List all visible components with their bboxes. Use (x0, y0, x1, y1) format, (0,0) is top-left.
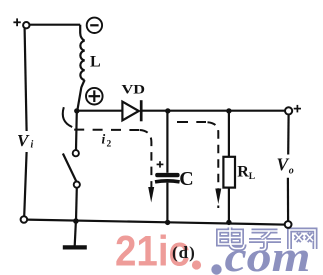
switch top contact (73, 150, 79, 156)
wire rail to diode (77, 110, 122, 112)
node junction left (74, 108, 79, 113)
svg-text:R: R (237, 164, 249, 181)
capacitor C bottom plate (155, 181, 180, 182)
watermark char 电 (219, 228, 245, 249)
switch lever (63, 154, 77, 182)
wire inductor to node (77, 80, 84, 111)
svg-text:2: 2 (107, 139, 112, 149)
svg-text:C: C (179, 168, 193, 190)
terminal top-left (23, 22, 29, 28)
watermark .com (211, 234, 310, 275)
label Vo (277, 155, 294, 177)
polarity circle minus (87, 18, 102, 33)
switch bottom contact (74, 182, 80, 188)
ground bar (63, 245, 87, 249)
resistor RL wire lower (228, 188, 230, 223)
capacitor plus sign (157, 161, 164, 167)
node junction capacitor top (165, 108, 170, 113)
svg-text:L: L (249, 172, 255, 182)
wire top horizontal (30, 24, 81, 26)
arrowhead current into C (148, 187, 154, 203)
diode VD (122, 100, 141, 121)
capacitor wire lower (166, 183, 168, 223)
wire output right upper (287, 115, 290, 155)
terminal bottom-left (21, 216, 28, 223)
inductor L (80, 41, 84, 80)
node junction RL bottom (226, 220, 231, 225)
node junction RL top (226, 108, 231, 113)
terminal bottom-right (285, 221, 292, 228)
resistor RL wire upper (228, 111, 230, 157)
plus sign top-left (13, 18, 20, 26)
capacitor wire upper (166, 111, 168, 173)
node junction capacitor bottom (165, 220, 170, 225)
svg-text:V: V (277, 155, 290, 175)
svg-text:(d): (d) (172, 243, 196, 262)
plus sign top-right (294, 105, 301, 113)
polarity circle plus (86, 88, 103, 105)
ground stem (75, 221, 76, 246)
watermark char 网 (290, 230, 316, 249)
switch wire upper (75, 111, 78, 150)
terminal top-right (285, 107, 292, 114)
svg-text:i: i (102, 132, 106, 147)
bottom rail wire (27, 220, 288, 225)
watermark 21ic (115, 228, 201, 275)
node junction bottom left (73, 218, 79, 224)
dashed current loop i2 horizontal and down to C (74, 129, 139, 131)
resistor RL body (223, 157, 235, 188)
wire output right lower (287, 178, 289, 221)
svg-text:o: o (289, 166, 294, 177)
wire left lower (24, 152, 26, 216)
dashed current loop i2 arc left (63, 107, 72, 127)
dashed current loop right to RL (177, 121, 206, 123)
svg-text:L: L (90, 54, 101, 71)
svg-text:i: i (31, 140, 34, 151)
label RL (237, 164, 255, 182)
label i2 (102, 132, 112, 150)
wire diode to right (141, 110, 288, 112)
arrowhead current into RL (215, 189, 221, 205)
svg-text:VD: VD (122, 81, 146, 96)
switch wire lower (75, 188, 78, 221)
watermark char 子 (249, 231, 281, 250)
capacitor C top plate (155, 173, 179, 177)
label Vi (17, 131, 34, 151)
svg-text:V: V (17, 131, 30, 150)
wire top corner down (80, 25, 84, 41)
wire left upper (25, 28, 27, 131)
